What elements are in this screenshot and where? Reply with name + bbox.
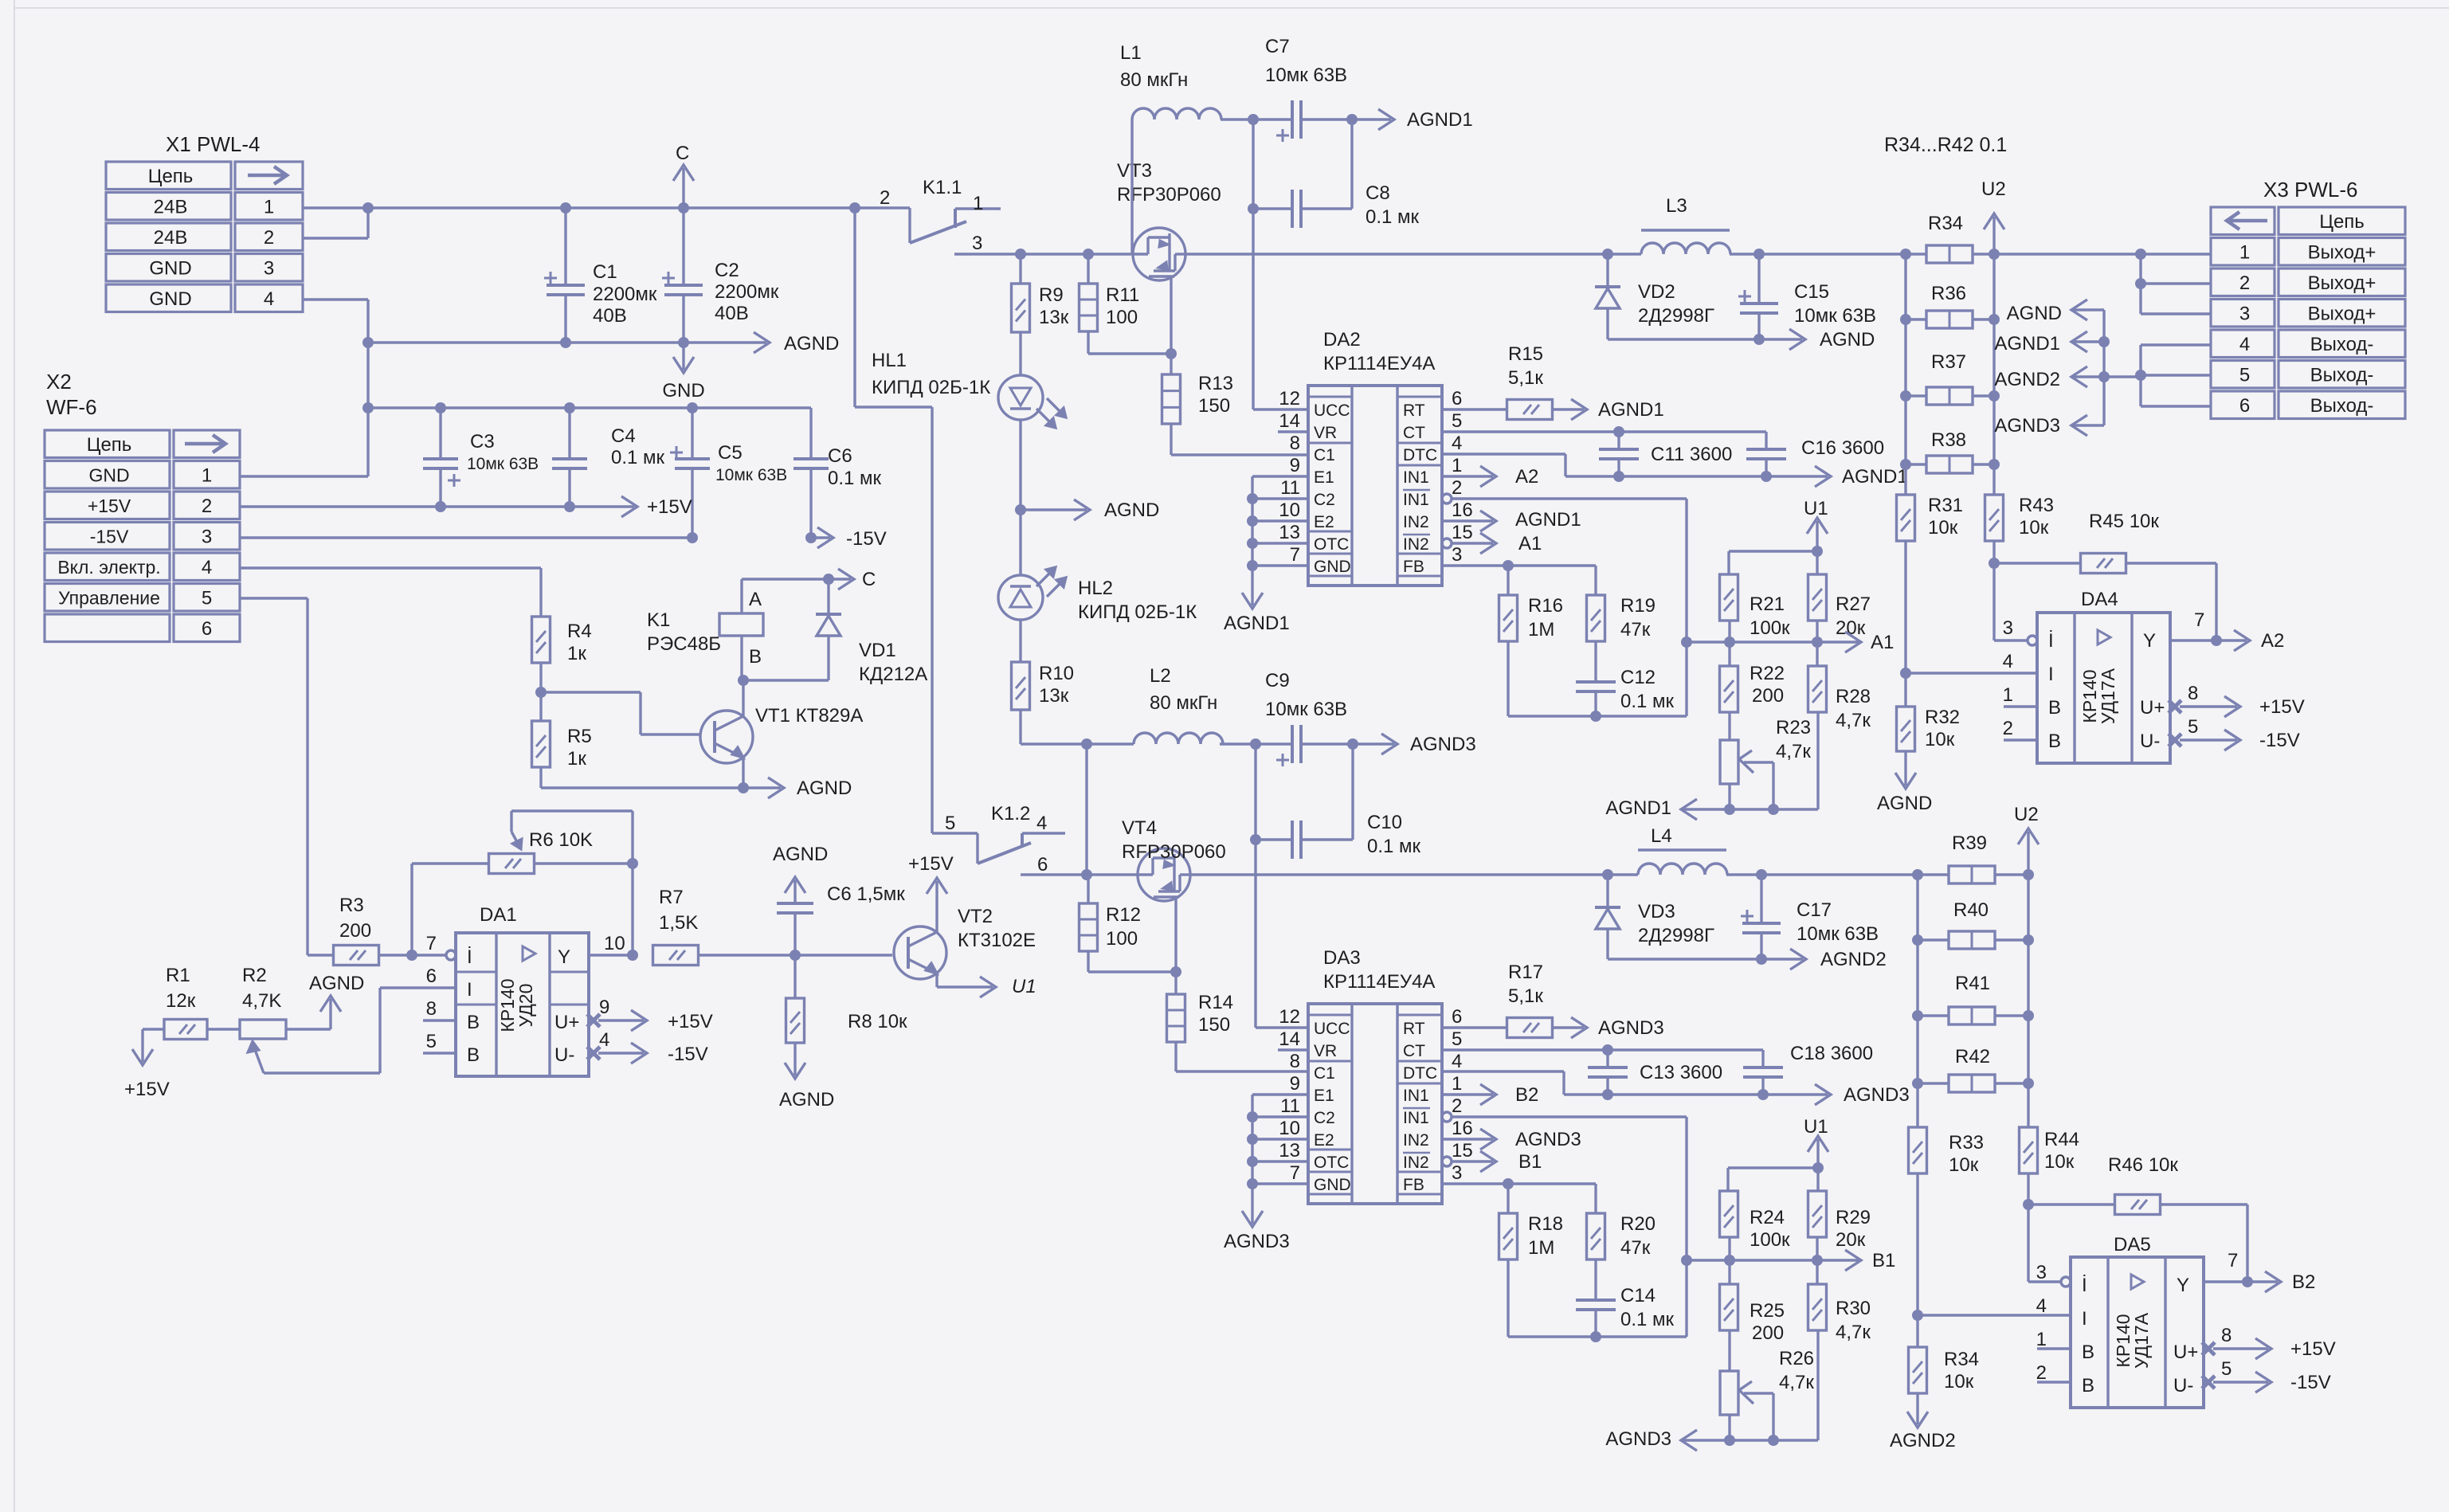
svg-text:AGND1: AGND1 xyxy=(1224,613,1290,634)
resistor R21 xyxy=(1720,574,1738,621)
svg-text:AGND2: AGND2 xyxy=(1994,369,2060,390)
svg-text:4: 4 xyxy=(1036,813,1047,834)
resistor R1 xyxy=(164,1020,207,1040)
svg-text:E1: E1 xyxy=(1314,1087,1334,1105)
svg-text:4: 4 xyxy=(202,557,212,578)
svg-text:10: 10 xyxy=(1279,1118,1300,1139)
wire R33 to R34b xyxy=(1916,1173,1918,1347)
capacitor C6 1.5mk xyxy=(793,913,796,955)
net arrow U1 top xyxy=(1816,521,1818,551)
svg-text:IN1: IN1 xyxy=(1403,1109,1429,1127)
svg-text:R28: R28 xyxy=(1836,686,1871,707)
svg-text:DA2: DA2 xyxy=(1323,329,1361,351)
svg-text:1M: 1M xyxy=(1528,1237,1554,1259)
svg-text:AGND3: AGND3 xyxy=(1844,1084,1910,1106)
LED HL2 xyxy=(998,575,1043,620)
svg-text:0.1 мк: 0.1 мк xyxy=(1620,691,1675,712)
wire GND bus 2 xyxy=(368,406,811,409)
capacitor C2 xyxy=(682,208,684,285)
wire control line from X2 pin5 xyxy=(240,597,308,599)
svg-text:DTC: DTC xyxy=(1403,1064,1437,1083)
net arrow B2 DA5 out xyxy=(2247,1280,2278,1283)
svg-text:7: 7 xyxy=(426,933,437,954)
svg-text:Цепь: Цепь xyxy=(2319,211,2365,233)
wire DA2 CT line xyxy=(1442,430,1766,433)
potentiometer R26 xyxy=(1720,1371,1738,1415)
op-amp DA1 box xyxy=(456,933,589,1076)
net arrow AGND3 at R17 xyxy=(1553,1026,1584,1028)
capacitor C5 xyxy=(691,408,693,459)
svg-text:İ: İ xyxy=(2048,630,2054,652)
svg-text:OTC: OTC xyxy=(1314,535,1349,554)
svg-text:VD3: VD3 xyxy=(1638,901,1675,922)
svg-text:+15V: +15V xyxy=(2259,696,2305,718)
svg-text:AGND1: AGND1 xyxy=(1994,333,2060,354)
resistor R29 xyxy=(1808,1191,1827,1237)
svg-text:5: 5 xyxy=(2188,716,2198,738)
svg-text:8: 8 xyxy=(2188,683,2198,704)
pin 7 DA1 xyxy=(446,950,456,960)
svg-text:-15V: -15V xyxy=(2290,1372,2331,1393)
svg-text:-15V: -15V xyxy=(846,528,887,550)
resistor R43 xyxy=(1985,495,2004,541)
svg-text:K1.2: K1.2 xyxy=(991,803,1030,825)
svg-text:Вкл. электр.: Вкл. электр. xyxy=(57,557,160,578)
svg-text:13к: 13к xyxy=(1039,307,1069,328)
svg-text:10к: 10к xyxy=(1949,1154,1979,1176)
svg-text:20к: 20к xyxy=(1836,1229,1866,1251)
svg-text:16: 16 xyxy=(1452,1118,1473,1139)
svg-text:R19: R19 xyxy=(1620,595,1656,617)
svg-text:C18 3600: C18 3600 xyxy=(1790,1043,1873,1064)
svg-text:U+: U+ xyxy=(2140,697,2165,719)
svg-text:R36: R36 xyxy=(1931,283,1966,304)
svg-text:3: 3 xyxy=(2036,1262,2047,1283)
svg-text:Y: Y xyxy=(2177,1275,2189,1296)
svg-text:GND: GND xyxy=(88,465,129,486)
svg-text:КР1114ЕУ4А: КР1114ЕУ4А xyxy=(1323,353,1435,374)
wire B1 line xyxy=(1687,1259,1861,1261)
svg-text:HL2: HL2 xyxy=(1078,578,1113,599)
net arrow AGND1 at R15 xyxy=(1553,408,1584,410)
svg-text:47к: 47к xyxy=(1620,1237,1651,1259)
wire pin2 vertical xyxy=(1685,499,1687,716)
resistor R41 xyxy=(1949,1007,1995,1024)
resistor R5 xyxy=(532,721,551,767)
svg-text:R7: R7 xyxy=(659,887,684,908)
svg-text:100: 100 xyxy=(1106,307,1138,328)
svg-text:U+: U+ xyxy=(554,1012,579,1033)
resistor R45 xyxy=(1994,562,2081,564)
svg-text:5: 5 xyxy=(945,813,955,834)
svg-text:12: 12 xyxy=(1279,388,1300,409)
svg-text:R27: R27 xyxy=(1836,593,1871,615)
svg-text:B2: B2 xyxy=(1515,1084,1538,1106)
wire ladder left rail top xyxy=(1904,254,1906,495)
svg-text:5,1к: 5,1к xyxy=(1508,367,1543,389)
capacitor C4 xyxy=(568,408,570,459)
resistor R24 xyxy=(1720,1191,1738,1237)
switch K1.1 xyxy=(908,208,911,243)
wire R5 bottom AGND xyxy=(539,767,542,788)
svg-text:12: 12 xyxy=(1279,1006,1300,1028)
svg-text:I: I xyxy=(467,979,472,1001)
wire node 6 main line xyxy=(1021,873,1638,875)
svg-text:12к: 12к xyxy=(166,990,196,1012)
op-amp DA4 box xyxy=(2037,613,2170,763)
wire +15V rail xyxy=(240,505,441,507)
svg-text:B: B xyxy=(749,646,762,668)
svg-text:R12: R12 xyxy=(1106,904,1141,926)
wire DA3 pin12 UCC stub xyxy=(1256,1026,1308,1028)
svg-text:DA4: DA4 xyxy=(2081,589,2118,610)
net arrow B1 DA3 pin15 xyxy=(1442,1157,1452,1166)
net arrow AGND at GND bus xyxy=(684,341,766,343)
wire DA2 pin14 VR stub xyxy=(1278,430,1308,433)
svg-text:6: 6 xyxy=(202,618,212,640)
wire VT4 gate xyxy=(1174,899,1177,972)
svg-text:100: 100 xyxy=(1106,928,1138,950)
svg-text:4,7к: 4,7к xyxy=(1779,1372,1814,1393)
svg-text:Выход-: Выход- xyxy=(2310,334,2374,355)
svg-text:14: 14 xyxy=(1279,1028,1300,1050)
svg-text:200: 200 xyxy=(1752,685,1784,707)
pin5 DA4 -15V xyxy=(2169,734,2181,746)
capacitor C17 xyxy=(1756,869,1767,880)
svg-text:CT: CT xyxy=(1403,1042,1425,1060)
svg-text:4: 4 xyxy=(1452,433,1462,454)
svg-text:4: 4 xyxy=(599,1029,609,1051)
pin8 DA5 +15V xyxy=(2202,1342,2215,1355)
svg-text:0.1 мк: 0.1 мк xyxy=(1367,836,1421,857)
wire DA3 DTC jog xyxy=(1442,1070,1564,1072)
node R11 top xyxy=(1083,249,1094,260)
net arrow B1 node xyxy=(1845,1250,1861,1271)
potentiometer R6 10K xyxy=(489,854,535,874)
svg-text:1: 1 xyxy=(973,193,983,214)
svg-text:L3: L3 xyxy=(1666,195,1687,217)
svg-text:AGND: AGND xyxy=(1877,793,1932,814)
svg-text:C7: C7 xyxy=(1265,36,1290,57)
svg-text:AGND: AGND xyxy=(797,778,852,799)
svg-text:GND: GND xyxy=(149,288,191,310)
svg-text:8: 8 xyxy=(1290,433,1300,454)
svg-text:FB: FB xyxy=(1403,558,1424,576)
resistor R30 xyxy=(1808,1284,1827,1330)
svg-text:C10: C10 xyxy=(1367,812,1402,833)
svg-text:R33: R33 xyxy=(1949,1132,1984,1154)
svg-text:AGND2: AGND2 xyxy=(1820,949,1887,970)
wire GND bus xyxy=(368,341,684,343)
pin1 DA5 stub xyxy=(2037,1347,2071,1349)
svg-text:IN2: IN2 xyxy=(1403,1154,1429,1172)
svg-text:R32: R32 xyxy=(1925,707,1960,728)
wire ladder left rail bottom xyxy=(1916,875,1918,1127)
svg-text:AGND: AGND xyxy=(309,973,364,994)
svg-text:R1: R1 xyxy=(166,965,190,986)
resistor R46 xyxy=(2028,1203,2115,1205)
wire R12 bottom to gate node xyxy=(1087,951,1089,972)
svg-text:7: 7 xyxy=(2228,1250,2238,1271)
svg-text:GND: GND xyxy=(1314,558,1351,576)
svg-text:2: 2 xyxy=(2036,1362,2047,1384)
svg-text:11: 11 xyxy=(1280,1095,1300,1117)
node L2 link xyxy=(1081,869,1092,880)
wire FB bottom return xyxy=(1507,641,1509,716)
svg-text:10мк 63В: 10мк 63В xyxy=(1797,923,1879,945)
svg-text:FB: FB xyxy=(1403,1176,1424,1194)
LED HL1 xyxy=(1019,332,1021,375)
resistor R20 xyxy=(1587,1213,1605,1259)
wire X1 pin4 GND xyxy=(303,298,368,300)
resistor R39 xyxy=(1949,866,1995,883)
svg-text:AGND: AGND xyxy=(784,333,839,354)
wire DA3 CT line xyxy=(1442,1048,1763,1051)
svg-text:КД212А: КД212А xyxy=(859,664,927,685)
svg-text:VD2: VD2 xyxy=(1638,281,1675,303)
transistor VT1 KT829A xyxy=(700,711,753,763)
svg-text:4: 4 xyxy=(264,288,274,310)
svg-text:5: 5 xyxy=(1452,410,1462,432)
resistor R34 bottom xyxy=(1909,1347,1927,1393)
op-amp DA5 box xyxy=(2071,1257,2204,1408)
wire VT2 collector +15V arrow xyxy=(935,912,938,932)
svg-text:B: B xyxy=(467,1012,480,1033)
svg-text:R8 10к: R8 10к xyxy=(848,1011,907,1032)
svg-text:5: 5 xyxy=(1452,1028,1462,1050)
svg-text:0.1 мк: 0.1 мк xyxy=(1366,206,1420,228)
svg-text:3: 3 xyxy=(2239,304,2250,325)
svg-text:AGND: AGND xyxy=(1104,499,1159,521)
svg-text:L2: L2 xyxy=(1150,665,1171,687)
resistor R9 xyxy=(1019,254,1021,284)
resistor R14 xyxy=(1174,972,1177,994)
svg-text:VD1: VD1 xyxy=(859,640,896,661)
resistor R12 xyxy=(1087,875,1089,903)
diode VD1 KD212A xyxy=(827,579,829,614)
svg-text:C9: C9 xyxy=(1265,670,1290,691)
ground arrow AGND3 DA3 xyxy=(1251,1184,1253,1224)
svg-text:6: 6 xyxy=(1037,854,1048,875)
svg-text:1: 1 xyxy=(202,465,212,487)
svg-text:C12: C12 xyxy=(1620,667,1656,688)
svg-text:C13 3600: C13 3600 xyxy=(1640,1062,1722,1083)
svg-text:9: 9 xyxy=(599,997,609,1018)
capacitor C16 xyxy=(1765,432,1767,449)
svg-text:2: 2 xyxy=(1452,1095,1462,1117)
resistor R2 xyxy=(240,1020,286,1039)
net arrow AGND3 DA3 pin16 xyxy=(1442,1138,1493,1140)
svg-text:+15V: +15V xyxy=(668,1011,713,1032)
wire R26 wiper xyxy=(1744,1392,1773,1394)
IC DA2 cell lines xyxy=(1308,396,1352,398)
svg-text:R34...R42 0.1: R34...R42 0.1 xyxy=(1884,134,2007,156)
wire DA2 pin2 IN1bar xyxy=(1442,494,1452,503)
svg-text:1: 1 xyxy=(264,197,274,218)
svg-text:C14: C14 xyxy=(1620,1285,1656,1306)
svg-text:10: 10 xyxy=(1279,499,1300,521)
connector X2 header arrow xyxy=(185,442,224,446)
svg-text:VR: VR xyxy=(1314,1042,1337,1060)
svg-text:Выход+: Выход+ xyxy=(2308,242,2377,264)
svg-text:U-: U- xyxy=(2140,731,2160,752)
svg-text:2: 2 xyxy=(2239,272,2250,294)
svg-text:U-: U- xyxy=(2173,1375,2193,1396)
wire GND to second bus xyxy=(366,343,369,476)
wire VT1 emitter to AGND rail xyxy=(742,758,744,788)
svg-text:2200мк: 2200мк xyxy=(593,284,657,305)
svg-text:DA1: DA1 xyxy=(480,904,517,926)
resistor R40 xyxy=(1949,931,1995,949)
wire R23 wiper xyxy=(1744,761,1773,763)
wire R14 to DA3 pin8 xyxy=(1174,1042,1177,1071)
net arrow AGND above C6 xyxy=(793,880,796,883)
svg-text:E2: E2 xyxy=(1314,1131,1334,1150)
pin 4 DA1 -15V xyxy=(587,1047,600,1060)
svg-text:RFP30P060: RFP30P060 xyxy=(1122,841,1226,863)
diode VD2 2D2998G xyxy=(1602,249,1613,260)
wire VT2 emitter U1 out xyxy=(935,973,938,987)
wire R25 to R26 xyxy=(1728,1330,1730,1371)
svg-text:R24: R24 xyxy=(1750,1207,1785,1228)
wire VD3 bottom line xyxy=(1608,958,1761,960)
net arrow -15V xyxy=(811,536,830,539)
resistor R38 xyxy=(1926,456,1973,473)
capacitor C8 xyxy=(1253,207,1292,210)
capacitor C13 xyxy=(1606,1050,1609,1067)
svg-text:R9: R9 xyxy=(1039,284,1064,306)
svg-text:IN1: IN1 xyxy=(1403,468,1429,487)
svg-text:K1: K1 xyxy=(647,609,670,631)
IC DA3 cell lines xyxy=(1308,1014,1352,1016)
svg-text:C11 3600: C11 3600 xyxy=(1651,444,1732,465)
svg-text:R46 10к: R46 10к xyxy=(2108,1154,2178,1176)
net arrow C up xyxy=(682,168,684,208)
pin5 DA5 -15V xyxy=(2202,1376,2215,1389)
op-amp DA1 cell lines xyxy=(456,971,496,973)
svg-text:10мк 63В: 10мк 63В xyxy=(1265,699,1347,720)
resistor R27 xyxy=(1808,574,1827,621)
svg-text:10мк 63В: 10мк 63В xyxy=(1265,65,1347,86)
svg-text:3: 3 xyxy=(972,233,982,254)
wire DA4 output Y xyxy=(2170,639,2216,641)
svg-text:1M: 1M xyxy=(1528,619,1554,640)
svg-text:R17: R17 xyxy=(1508,962,1543,983)
resistor R34 xyxy=(1926,245,1973,263)
svg-text:VT4: VT4 xyxy=(1122,817,1157,839)
wire DA2 pin12 UCC stub xyxy=(1253,408,1308,410)
svg-text:R6 10K: R6 10K xyxy=(529,829,593,851)
resistor R36 xyxy=(1926,311,1973,328)
svg-text:R5: R5 xyxy=(567,726,592,747)
svg-text:8: 8 xyxy=(426,998,437,1020)
svg-text:4: 4 xyxy=(2003,651,2013,672)
svg-text:40В: 40В xyxy=(593,305,627,327)
capacitor C12 xyxy=(1594,641,1597,682)
wire AGND1 return line top block xyxy=(1681,808,1818,810)
resistor R15 xyxy=(1442,408,1507,410)
svg-text:L1: L1 xyxy=(1120,42,1142,64)
svg-text:C5: C5 xyxy=(718,442,743,464)
potentiometer R2 wiper arrow xyxy=(254,1048,264,1073)
capacitor C6 xyxy=(809,408,812,459)
wire VD2 bottom line xyxy=(1608,338,1759,340)
svg-text:3: 3 xyxy=(2003,617,2013,639)
svg-text:R14: R14 xyxy=(1198,992,1233,1013)
svg-text:C3: C3 xyxy=(470,431,495,452)
svg-text:DA3: DA3 xyxy=(1323,947,1361,969)
wire R44 to DA5 pin3 xyxy=(2027,1173,2029,1282)
svg-text:4,7к: 4,7к xyxy=(1836,710,1871,731)
svg-text:5: 5 xyxy=(2221,1358,2232,1380)
wire L1 output node xyxy=(1221,118,1253,120)
svg-text:A2: A2 xyxy=(2261,630,2284,652)
net arrow U1 at VT2 xyxy=(972,985,993,988)
svg-text:Управление: Управление xyxy=(58,588,160,609)
connector X1 header arrow xyxy=(248,174,285,178)
svg-text:C1: C1 xyxy=(593,261,617,283)
wire node 3 main line xyxy=(954,253,1641,255)
svg-text:13: 13 xyxy=(1279,1140,1300,1161)
svg-text:6: 6 xyxy=(426,966,437,987)
svg-text:0.1 мк: 0.1 мк xyxy=(611,447,665,468)
svg-text:1к: 1к xyxy=(567,748,586,770)
resistor R18 xyxy=(1507,1184,1509,1213)
svg-text:GND: GND xyxy=(662,380,704,402)
svg-text:R39: R39 xyxy=(1952,832,1987,854)
svg-text:C15: C15 xyxy=(1794,281,1829,303)
wire DA3 pin14 VR stub xyxy=(1278,1048,1308,1051)
svg-text:9: 9 xyxy=(1290,1073,1300,1095)
capacitor C14 xyxy=(1594,1259,1597,1300)
svg-text:VT2: VT2 xyxy=(958,906,993,927)
svg-text:B: B xyxy=(2048,731,2061,752)
net arrow C relay xyxy=(829,578,851,580)
wire R7 output line xyxy=(699,954,892,956)
svg-text:C2: C2 xyxy=(715,260,739,281)
net arrow U2 bottom xyxy=(2027,832,2029,875)
pin 9 DA1 +15V xyxy=(587,1014,600,1027)
svg-text:5,1к: 5,1к xyxy=(1508,985,1543,1007)
wire main line after L4 xyxy=(1726,873,1918,875)
svg-text:10мк 63В: 10мк 63В xyxy=(467,455,539,473)
svg-text:A2: A2 xyxy=(1515,466,1538,488)
svg-text:10к: 10к xyxy=(2019,517,2049,539)
resistor R44 xyxy=(2020,1127,2038,1173)
svg-text:+15V: +15V xyxy=(88,496,131,516)
svg-text:VT1 КТ829А: VT1 КТ829А xyxy=(755,705,863,727)
svg-text:10мк 63В: 10мк 63В xyxy=(1794,305,1876,327)
svg-text:Выход+: Выход+ xyxy=(2308,272,2377,294)
svg-text:15: 15 xyxy=(1452,522,1473,543)
net arrow AGND below R8 xyxy=(793,1043,796,1075)
svg-text:УД17А: УД17А xyxy=(2131,1312,2152,1369)
svg-text:K1.1: K1.1 xyxy=(923,177,962,198)
node junction X1 pin2 tie xyxy=(303,237,368,239)
svg-text:AGND3: AGND3 xyxy=(1515,1129,1581,1150)
node C1 top xyxy=(560,202,571,213)
svg-text:C: C xyxy=(676,143,689,164)
resistor R25 xyxy=(1720,1284,1738,1330)
pin8 DA4 +15V xyxy=(2169,700,2181,713)
svg-text:80 мкГн: 80 мкГн xyxy=(1150,692,1217,714)
wire relay coil bottom xyxy=(740,636,743,680)
svg-text:16: 16 xyxy=(1452,499,1473,521)
svg-text:2: 2 xyxy=(202,496,212,517)
svg-text:10к: 10к xyxy=(2044,1151,2075,1173)
wire main line to X3 xyxy=(1994,253,2211,255)
svg-text:AGND1: AGND1 xyxy=(1605,797,1671,819)
